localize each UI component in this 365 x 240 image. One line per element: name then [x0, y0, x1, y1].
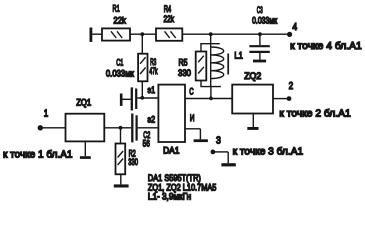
mixer IC DA1: [158, 85, 185, 142]
svg-text:к точке 3 бл.А1: к точке 3 бл.А1: [233, 146, 304, 158]
wire: DA1 И to ground: [185, 129, 200, 140]
svg-text:C1: C1: [116, 58, 123, 68]
wire: R1 to R4: [130, 33, 156, 35]
svg-text:56: 56: [143, 138, 150, 148]
node 2 terminal dot: [287, 96, 292, 101]
wire: DA1 C to ZQ2: [185, 98, 232, 100]
ground (R2): [114, 174, 129, 187]
svg-text:И: И: [190, 113, 195, 123]
wire: node1 to ZQ1: [40, 127, 65, 129]
wire: node 3 to ground: [213, 152, 228, 163]
svg-text:22k: 22k: [164, 14, 175, 24]
svg-text:C3: C3: [257, 5, 263, 15]
svg-text:330: 330: [178, 68, 191, 78]
ground (node 3): [221, 163, 235, 166]
wire: R3 branch stem (top): [141, 34, 143, 54]
inductor core line: [227, 54, 229, 75]
wire: ZQ1 to C2: [104, 127, 131, 129]
svg-text:0.033мк: 0.033мк: [106, 68, 134, 78]
node junction R3 / э1: [140, 96, 144, 100]
wire: R3 to э1 line: [141, 81, 143, 98]
svg-text:к точке 1 бл.А1: к точке 1 бл.А1: [3, 148, 73, 160]
svg-text:э1: э1: [148, 85, 156, 95]
crystal ZQ2: [232, 85, 273, 114]
ground (ZQ2): [247, 114, 258, 130]
svg-text:0.033мк: 0.033мк: [252, 15, 277, 25]
svg-text:3: 3: [216, 134, 221, 146]
terminal supply input: [90, 28, 93, 42]
svg-text:ZQ1: ZQ1: [76, 98, 91, 108]
svg-text:22k: 22k: [113, 15, 126, 25]
crystal ZQ1: [66, 114, 105, 142]
svg-text:C: C: [189, 87, 194, 97]
wire: C1 to DA1 э1: [137, 97, 158, 99]
node 4 terminal dot: [287, 32, 292, 37]
svg-text:R4: R4: [164, 4, 172, 14]
wire: L1/R5 top rail: [200, 43, 220, 45]
ground (ZQ1): [80, 141, 91, 159]
svg-text:к точке 4 бл.А1: к точке 4 бл.А1: [290, 40, 362, 52]
svg-text:4: 4: [292, 21, 297, 33]
svg-text:47k: 47k: [149, 66, 157, 76]
node 3 terminal dot: [211, 150, 216, 155]
node junction at L1 branch (top): [209, 32, 213, 36]
svg-text:R5: R5: [179, 58, 188, 68]
wire: terminal to R1: [92, 33, 102, 35]
wire: L1 branch stem top: [210, 34, 212, 44]
resistor R5: [196, 44, 207, 87]
svg-text:2: 2: [289, 80, 294, 92]
svg-text:1: 1: [44, 108, 49, 120]
capacitor C1: [120, 87, 136, 110]
svg-text:ZQ2: ZQ2: [244, 71, 261, 81]
node junction R2 branch: [119, 126, 123, 130]
ground (C3): [253, 60, 266, 63]
svg-text:R1: R1: [113, 4, 120, 14]
capacitor C2: [132, 114, 136, 143]
wire: L1 stem to C wire: [210, 87, 212, 99]
svg-text:330: 330: [128, 157, 138, 167]
resistor R1: [102, 28, 130, 40]
wire: L1/R5 bottom rail: [200, 86, 221, 88]
svg-text:L1: L1: [234, 51, 242, 61]
svg-text:э2: э2: [148, 114, 156, 124]
node 1 terminal dot: [38, 125, 43, 130]
node junction L1 / C wire: [209, 97, 213, 101]
inductor L1: [211, 44, 224, 87]
resistor R3: [138, 54, 147, 82]
svg-text:к точке 2 бл.А1: к точке 2 бл.А1: [279, 107, 350, 119]
wire: C2 to DA1 э2: [138, 127, 159, 129]
svg-text:L1- 3,9мкГн: L1- 3,9мкГн: [148, 192, 191, 202]
node junction at R3 branch (top): [140, 32, 144, 36]
capacitor C3: [249, 34, 269, 59]
resistor R4: [156, 28, 182, 40]
ground (И): [194, 139, 208, 142]
wire: ZQ2 to node 2: [273, 98, 289, 100]
svg-text:DA1: DA1: [163, 146, 179, 156]
node junction at C3 branch (top): [258, 32, 262, 36]
resistor R2: [116, 128, 126, 175]
wire: R4 to node 4: [182, 33, 289, 35]
